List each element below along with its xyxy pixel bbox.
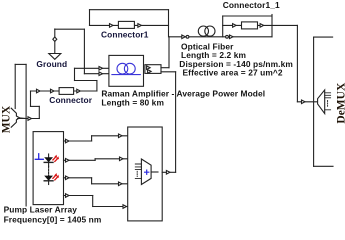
wire connector output staircase to Raman upper input [75,67,109,92]
wire ground drop to Raman lower input [84,29,109,75]
svg-text:Effective area = 27 um^2: Effective area = 27 um^2 [183,68,283,78]
pump laser diode 2 [44,166,59,184]
svg-text:Connector: Connector [49,95,92,105]
wire C1_1 output to DeMux input [272,25,318,103]
svg-text:Connector1_1: Connector1_1 [223,0,280,10]
wire bracket around MUX (long vertical) [15,64,26,206]
wire Raman lower port down to pump combiner [161,72,176,173]
pump laser array box [33,132,63,205]
wire pump output 4 to combiner [64,194,128,209]
pump laser diode 1 [35,154,59,167]
wire pump output 3 to combiner [64,176,128,186]
connector C1_1 (box on loop) [233,22,264,29]
svg-text:Length = 80 km: Length = 80 km [101,97,164,107]
wire pump output 1 to combiner [64,134,128,143]
connector C (box) [31,88,97,95]
pump combiner box [128,127,163,221]
svg-text:Pump Laser Array: Pump Laser Array [4,204,78,214]
connector C1 loop rectangle [90,10,169,37]
svg-text:Frequency[0] = 1405 nm: Frequency[0] = 1405 nm [4,215,102,225]
wire combiner output to Raman pump port [162,171,175,175]
connector C1_1 loop rectangle [223,15,272,37]
wire pump output 2 to combiner [64,157,128,162]
svg-text:DeMUX: DeMUX [335,82,345,124]
wire staircase MUX output up to Connector input [18,91,40,120]
DeMux trapezoid icon [318,90,331,114]
svg-text:MUX: MUX [0,105,12,133]
MUX funnel icon [11,108,26,127]
wire Raman upper output up to fiber line [161,37,169,68]
wire fiber line [169,35,272,39]
ground [49,29,61,59]
connector C1 (box on loop) [110,21,142,28]
Raman amplifier box [109,55,144,86]
optical fiber coil [198,26,215,36]
Raman amplifier output ports block [145,65,161,74]
wire bracket around DeMux [314,37,333,166]
pump combiner trapezoid icon [135,159,158,185]
svg-text:Ground: Ground [36,59,67,69]
svg-text:Connector1: Connector1 [101,30,149,40]
wire ground to vertical drop [55,28,85,30]
